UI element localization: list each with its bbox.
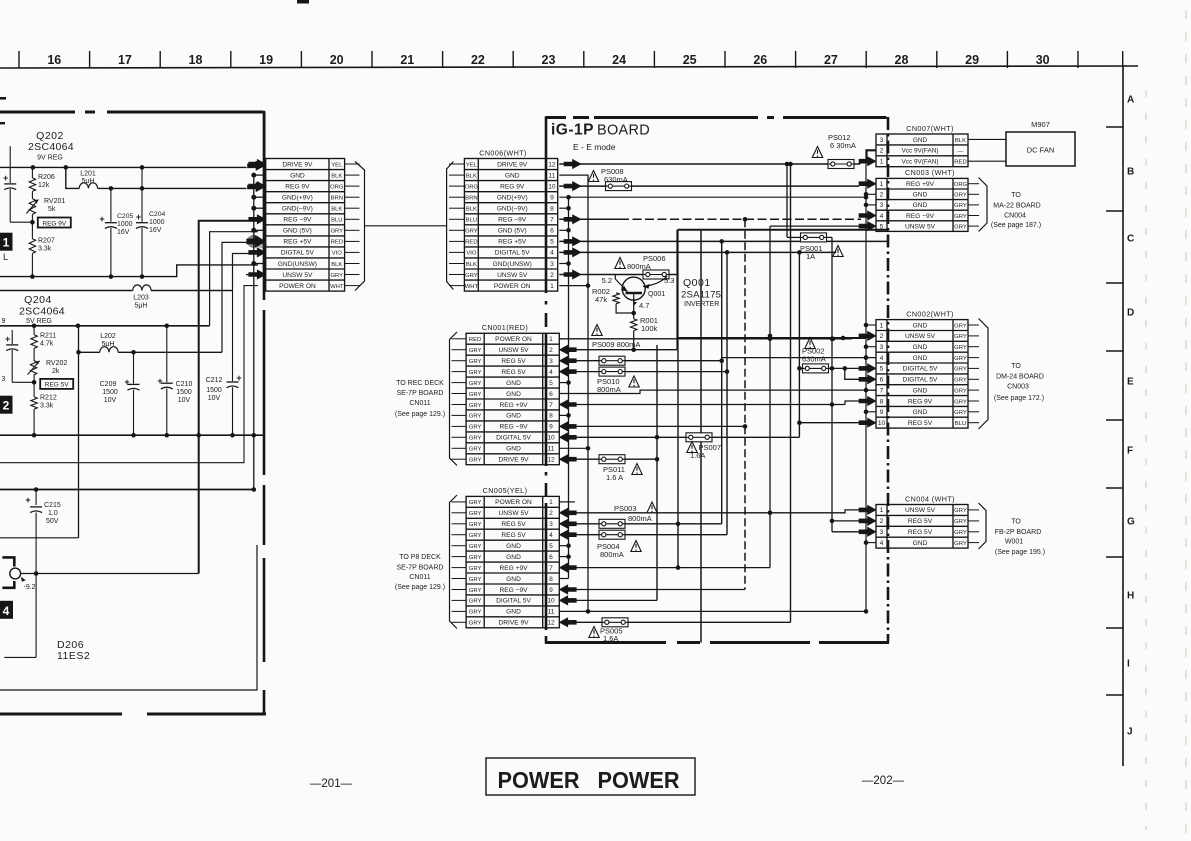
inductor L202	[100, 333, 118, 352]
fuse PS006	[627, 254, 669, 279]
svg-text:DIGITAL 5V: DIGITAL 5V	[496, 598, 531, 605]
svg-text:GND: GND	[506, 446, 521, 453]
cn001 r11 stub	[559, 447, 588, 449]
iG-1P board top border	[546, 116, 887, 119]
stubs left of CN006	[449, 164, 464, 286]
svg-text:3.3k: 3.3k	[38, 246, 52, 253]
cn005 r4 wire + fuse PS004	[559, 530, 727, 539]
E-E mode label	[573, 142, 616, 152]
stubs left of CN005	[452, 502, 467, 622]
node junction REG5V wiper	[12, 380, 36, 385]
cn001 r3 wire + fuse PS009	[559, 356, 721, 365]
junction dot L202 rail	[131, 350, 136, 355]
svg-text:CN002(WHT): CN002(WHT)	[906, 309, 954, 318]
svg-text:+: +	[236, 373, 241, 383]
capacitor C209	[100, 352, 140, 435]
ruler numbers 16-30	[47, 53, 1049, 67]
svg-text:RV201: RV201	[44, 198, 65, 205]
svg-text:20: 20	[330, 53, 344, 67]
svg-text:800mA: 800mA	[627, 262, 651, 271]
gnd collector bus left of table	[251, 173, 264, 492]
svg-text:GRY: GRY	[954, 224, 967, 230]
wire pin2 unsw5v	[559, 270, 677, 279]
drive bus v790	[790, 164, 792, 622]
cn005 r8 stub	[559, 578, 568, 580]
svg-text:GRY: GRY	[330, 229, 343, 235]
svg-text:8: 8	[549, 413, 553, 420]
svg-text:GND(−9V): GND(−9V)	[497, 206, 528, 213]
connector CN007 table	[876, 124, 968, 167]
svg-text:GND (5V): GND (5V)	[283, 228, 312, 235]
L wire CN007 pin2	[867, 150, 877, 161]
svg-text:6: 6	[549, 554, 553, 561]
svg-text:UNSW 5V: UNSW 5V	[905, 507, 936, 514]
svg-text:GRY: GRY	[469, 425, 482, 431]
wire pin12 drive9v	[559, 159, 828, 168]
svg-text:GRY: GRY	[954, 541, 967, 547]
svg-text:2: 2	[549, 347, 553, 354]
thin unsw gnd line	[0, 286, 258, 463]
svg-text:50V: 50V	[46, 518, 59, 525]
svg-text:GRY: GRY	[469, 500, 482, 506]
reg5v bus v727	[725, 252, 730, 534]
svg-text:REG −9V: REG −9V	[498, 217, 527, 224]
svg-text:GRY: GRY	[469, 522, 482, 528]
svg-text:10: 10	[878, 420, 886, 427]
svg-text:GND: GND	[913, 387, 928, 394]
svg-text:WHT: WHT	[330, 284, 344, 290]
c215 bottom corner wire	[4, 656, 36, 658]
left board top border	[0, 111, 263, 114]
svg-text:GRY: GRY	[954, 323, 967, 329]
svg-text:GRY: GRY	[469, 403, 482, 409]
svg-text:1500: 1500	[102, 389, 118, 396]
svg-text:1: 1	[880, 322, 884, 329]
svg-text:1500: 1500	[206, 387, 222, 394]
svg-text:REG 9V: REG 9V	[285, 183, 310, 190]
CN001 left brace	[450, 332, 458, 466]
svg-text:GRY: GRY	[469, 599, 482, 605]
resistor R002	[592, 287, 636, 315]
CN003 stubs + brace	[968, 184, 979, 226]
svg-text:TO P8 DECK: TO P8 DECK	[399, 554, 441, 561]
svg-text:6 30mA: 6 30mA	[830, 141, 856, 150]
svg-text:INVERTER: INVERTER	[684, 301, 719, 308]
svg-text:5μH: 5μH	[135, 303, 148, 310]
svg-text:28: 28	[895, 53, 909, 67]
svg-text:RV202: RV202	[46, 360, 67, 367]
svg-text:GND: GND	[290, 172, 305, 179]
svg-text:2k: 2k	[52, 368, 60, 375]
svg-text:REG −9V: REG −9V	[283, 217, 312, 224]
top rail q204 with L203	[0, 290, 233, 292]
diode D206 label	[57, 639, 90, 662]
svg-text:A: A	[1127, 95, 1134, 106]
svg-text:GND: GND	[506, 576, 521, 583]
wire pin5 reg+5v	[559, 237, 888, 246]
svg-text:19: 19	[259, 53, 273, 67]
stray mark top	[297, 0, 309, 4]
junction dots q204 rail	[32, 324, 169, 329]
svg-text:2: 2	[880, 518, 884, 525]
svg-text:+: +	[99, 214, 104, 224]
gnd stubs into right tables	[866, 194, 876, 542]
Q001 big labels	[681, 277, 721, 308]
svg-text:5: 5	[880, 366, 884, 373]
svg-text:1: 1	[880, 181, 884, 188]
iG-1P board bottom border	[545, 641, 889, 644]
svg-text:UNSW 5V: UNSW 5V	[905, 333, 936, 340]
scan artifact dashed edge lines	[1146, 10, 1186, 835]
row letters A-J	[1127, 95, 1135, 738]
svg-text:—201—: —201—	[310, 778, 353, 790]
svg-text:5: 5	[880, 223, 884, 230]
iG-1P board left border	[545, 116, 548, 643]
fuse PS012	[828, 133, 856, 169]
junction dots gnd rail	[30, 274, 144, 279]
svg-text:MA-22 BOARD: MA-22 BOARD	[993, 203, 1040, 210]
wire pin10 reg9v	[559, 182, 859, 191]
wire from test point	[21, 571, 199, 576]
left edge tick marks	[0, 97, 6, 124]
ruler ticks	[19, 51, 1123, 68]
svg-text:GRY: GRY	[954, 334, 967, 340]
svg-text:GND(+9V): GND(+9V)	[497, 195, 528, 202]
svg-text:3: 3	[880, 137, 884, 144]
fuse PS001	[800, 233, 827, 261]
TO MA-22 BOARD text	[991, 192, 1041, 229]
left table bundle brace	[355, 162, 365, 291]
svg-text:630mA: 630mA	[604, 175, 628, 184]
test point circle -9.2	[10, 568, 36, 591]
svg-text:8: 8	[549, 576, 553, 583]
svg-text:C209: C209	[100, 381, 117, 388]
TO P8 DECK text	[395, 554, 445, 591]
svg-text:GRY: GRY	[469, 436, 482, 442]
svg-text:6: 6	[549, 391, 553, 398]
svg-text:F: F	[1127, 446, 1133, 457]
svg-text:11: 11	[548, 609, 555, 616]
cn001 r1 wire to CN002 pin2	[559, 331, 876, 341]
svg-text:DIGTAL 5V: DIGTAL 5V	[281, 250, 315, 257]
svg-text:GRY: GRY	[469, 381, 482, 387]
svg-text:GND: GND	[913, 192, 928, 199]
fan motor M907 box	[1006, 120, 1075, 166]
svg-text:VIO: VIO	[466, 251, 477, 257]
svg-text:GRY: GRY	[465, 229, 478, 235]
svg-text:BRN: BRN	[465, 196, 477, 202]
svg-text:GND(−9V): GND(−9V)	[282, 206, 313, 213]
svg-text:9V REG: 9V REG	[37, 155, 63, 162]
svg-text:REG 5V: REG 5V	[908, 518, 933, 525]
svg-text:10V: 10V	[104, 397, 117, 404]
svg-text:TO REC DECK: TO REC DECK	[396, 380, 444, 387]
svg-text:REG +9V: REG +9V	[906, 181, 935, 188]
svg-text:SE-7P BOARD: SE-7P BOARD	[397, 390, 444, 397]
svg-text:W001: W001	[1005, 539, 1023, 546]
svg-text:BLK: BLK	[466, 207, 477, 213]
smudged arrow row8	[247, 235, 267, 249]
cn001 r7 wire	[559, 400, 845, 409]
svg-text:GRY: GRY	[954, 203, 967, 209]
inductor L203	[133, 285, 151, 310]
svg-text:UNSW 5V: UNSW 5V	[498, 347, 529, 354]
svg-text:6: 6	[880, 377, 884, 384]
svg-text:RED: RED	[469, 337, 481, 343]
svg-text:I: I	[1127, 659, 1130, 670]
svg-text:ORG: ORG	[954, 182, 968, 188]
wires to DC FAN	[968, 139, 1006, 161]
svg-text:7: 7	[880, 387, 884, 394]
svg-text:POWER ON: POWER ON	[494, 283, 531, 290]
svg-text:2: 2	[880, 148, 884, 155]
svg-text:BLU: BLU	[955, 421, 966, 427]
svg-text:BLK: BLK	[955, 138, 966, 144]
svg-text:Q001: Q001	[648, 291, 665, 298]
svg-text:C204: C204	[149, 211, 165, 218]
page link box 4	[0, 601, 13, 619]
svg-text:1: 1	[880, 507, 884, 514]
svg-text:RED: RED	[465, 240, 477, 246]
svg-text:(See page 129.): (See page 129.)	[395, 584, 445, 591]
svg-text:REG 5V: REG 5V	[908, 420, 933, 427]
arrows into left table	[249, 159, 266, 279]
wire pin9 gnd	[559, 195, 868, 200]
svg-text:+: +	[136, 212, 141, 222]
svg-text:R211: R211	[40, 333, 56, 340]
PS004 label	[597, 541, 641, 560]
svg-text:VIO: VIO	[332, 251, 343, 257]
svg-text:2: 2	[549, 510, 553, 517]
svg-text:GND: GND	[506, 380, 521, 387]
junction dots unsw rail	[34, 487, 39, 492]
svg-text:POWER: POWER	[598, 767, 680, 793]
svg-text:CN003 (WHT): CN003 (WHT)	[905, 168, 955, 177]
PS001 branch	[787, 164, 832, 237]
svg-text:3: 3	[549, 521, 553, 528]
svg-text:C215: C215	[44, 502, 61, 509]
svg-text:UNSW 5V: UNSW 5V	[905, 223, 936, 230]
svg-text:21: 21	[400, 53, 414, 67]
stub pin6	[559, 229, 568, 231]
svg-text:17: 17	[118, 53, 132, 67]
svg-text:7: 7	[549, 565, 553, 572]
stub pin8	[559, 207, 568, 209]
svg-text:DC FAN: DC FAN	[1027, 146, 1055, 155]
svg-text:+: +	[3, 173, 8, 183]
ruler line	[0, 66, 1138, 68]
svg-text:47k: 47k	[595, 295, 607, 304]
svg-text:POWER ON: POWER ON	[279, 283, 316, 290]
PS002 labels	[802, 338, 826, 364]
svg-text:POWER ON: POWER ON	[495, 499, 532, 506]
capacitor C210	[157, 326, 192, 435]
svg-text:FB-2P BOARD: FB-2P BOARD	[995, 529, 1042, 536]
svg-text:REG +5V: REG +5V	[498, 239, 527, 246]
svg-text:GND(+9V): GND(+9V)	[282, 195, 313, 202]
gnd bus right v866	[864, 161, 869, 614]
svg-text:SE-7P BOARD: SE-7P BOARD	[397, 565, 444, 572]
svg-text:9: 9	[880, 409, 884, 416]
svg-text:16V: 16V	[117, 229, 130, 236]
svg-text:630mA: 630mA	[802, 355, 826, 364]
svg-text:10: 10	[547, 435, 555, 442]
svg-text:L: L	[3, 252, 8, 262]
cn001 r12 wire + fuse PS011	[559, 455, 657, 464]
svg-text:10: 10	[547, 598, 555, 605]
cn005 r3 wire + fuse PS003	[559, 519, 721, 528]
warning triangle ps008	[588, 171, 598, 182]
svg-text:CN004 (WHT): CN004 (WHT)	[905, 494, 955, 503]
svg-text:GRY: GRY	[954, 356, 967, 362]
svg-text:GND: GND	[913, 344, 928, 351]
svg-text:BLK: BLK	[331, 173, 342, 179]
svg-text:C210: C210	[176, 381, 193, 388]
svg-text:UNSW 5V: UNSW 5V	[497, 272, 528, 279]
svg-text:Q001: Q001	[683, 277, 711, 289]
svg-text:1000: 1000	[117, 221, 133, 228]
stubs right of left table	[345, 164, 360, 286]
warning triangle ps001	[833, 246, 843, 257]
resistor R207	[29, 238, 55, 277]
resistor R212	[31, 395, 57, 436]
svg-text:4: 4	[549, 369, 553, 376]
svg-text:L203: L203	[133, 295, 149, 302]
svg-text:(See page 187.): (See page 187.)	[991, 222, 1041, 229]
svg-text:CN011: CN011	[409, 400, 430, 407]
arrow into CN002 pin8	[845, 396, 876, 405]
svg-text:4: 4	[550, 250, 554, 257]
gnd bus vertical v588	[559, 175, 590, 614]
connector CN002 table	[876, 309, 968, 428]
bottom thin wire	[0, 545, 257, 690]
svg-text:(See page 172.): (See page 172.)	[994, 395, 1044, 402]
svg-text:RED: RED	[954, 160, 966, 166]
svg-text:27: 27	[824, 53, 838, 67]
node junction dots on drive rail	[31, 165, 145, 170]
PS011 label	[603, 464, 642, 483]
svg-text:GND: GND	[913, 202, 928, 209]
svg-text:GND: GND	[506, 543, 521, 550]
junction dots reg9v rail	[109, 186, 145, 191]
svg-text:25: 25	[683, 53, 697, 67]
resistor R001	[631, 316, 658, 352]
cn001 r6 gnd wire to CN002 pin7	[559, 390, 876, 393]
svg-text:H: H	[1127, 591, 1134, 602]
resistor R206	[29, 167, 55, 191]
svg-text:BLK: BLK	[466, 262, 477, 268]
svg-text:(See page 129.): (See page 129.)	[395, 411, 445, 418]
svg-text:30: 30	[1036, 53, 1050, 67]
cn005 r5 stub	[559, 545, 568, 547]
step wire row9 digital5v	[233, 254, 259, 291]
svg-text:L201: L201	[80, 171, 96, 178]
svg-text:1: 1	[880, 159, 884, 166]
svg-text:CN006(WHT): CN006(WHT)	[479, 148, 527, 157]
left board bottom border	[0, 713, 266, 716]
connector CN003 table	[876, 168, 968, 231]
transistor Q204 labels	[19, 294, 65, 325]
PS010 label	[597, 376, 639, 394]
potentiometer RV201	[26, 191, 65, 239]
svg-text:GRY: GRY	[469, 414, 482, 420]
svg-text:REG 5V: REG 5V	[501, 358, 526, 365]
svg-text:BLU: BLU	[331, 218, 342, 224]
q001 box heavy verticals	[678, 230, 702, 643]
transistor Q001	[615, 275, 667, 319]
svg-text:5: 5	[549, 543, 553, 550]
svg-text:12k: 12k	[38, 182, 50, 189]
warning triangle near r1	[592, 325, 602, 336]
CN002 stubs + brace	[968, 325, 979, 423]
svg-text:R212: R212	[40, 395, 57, 402]
page number 201	[310, 778, 353, 790]
stub pin3	[559, 263, 568, 265]
svg-text:Vcc 9V(FAN): Vcc 9V(FAN)	[902, 159, 939, 166]
reg-9v bus v745 dashed	[744, 219, 746, 589]
svg-text:C: C	[1127, 234, 1134, 245]
cn005 r7 wire	[559, 563, 770, 572]
svg-text:GND: GND	[913, 322, 928, 329]
stub rail y537	[0, 537, 79, 539]
heavy unsw rail	[0, 489, 254, 491]
svg-text:GRY: GRY	[954, 519, 967, 525]
svg-text:4: 4	[880, 540, 884, 547]
cn001 r5 stub	[559, 382, 568, 384]
svg-text:26: 26	[753, 53, 767, 67]
svg-text:GND: GND	[913, 355, 928, 362]
svg-text:8: 8	[550, 206, 554, 213]
ground rail q202 with step to GND(UNSW) row	[0, 265, 258, 277]
cn001 r2 wire	[559, 345, 677, 354]
svg-text:5μH: 5μH	[82, 178, 95, 185]
svg-text:REG 9V: REG 9V	[500, 183, 525, 190]
arrow into DRIVE 9V row	[248, 161, 265, 170]
svg-text:+: +	[5, 334, 10, 344]
CN006 bundle brace	[447, 162, 454, 290]
svg-text:DRIVE 9V: DRIVE 9V	[497, 161, 528, 168]
page link box 2	[0, 396, 13, 414]
svg-text:PS003: PS003	[614, 504, 637, 513]
svg-text:GRY: GRY	[465, 273, 478, 279]
svg-text:12: 12	[547, 620, 555, 627]
svg-text:2SA1175: 2SA1175	[681, 290, 721, 301]
svg-text:REG 9V: REG 9V	[908, 398, 933, 405]
cn005 r12 wire + fuse PS005	[559, 618, 790, 627]
svg-text:GRY: GRY	[469, 348, 482, 354]
PS009 label	[592, 340, 640, 349]
long vertical v678 lower	[676, 350, 681, 570]
stubs left of CN001	[452, 339, 467, 459]
svg-text:11: 11	[548, 172, 555, 179]
svg-text:GRY: GRY	[469, 533, 482, 539]
svg-text:1: 1	[549, 499, 553, 506]
svg-text:5: 5	[550, 239, 554, 246]
arrow into CN003 pin1	[859, 179, 876, 188]
cn001 r10 wire + fuse PS007	[559, 433, 799, 442]
svg-text:12: 12	[547, 457, 555, 464]
svg-text:GRY: GRY	[469, 566, 482, 572]
svg-text:GRY: GRY	[469, 621, 482, 627]
cn005 r9 wire	[559, 585, 745, 594]
cn005 r11 gnd wire	[559, 610, 866, 612]
svg-text:REG 5V: REG 5V	[45, 382, 70, 389]
svg-text:C205: C205	[117, 213, 133, 220]
svg-text:E: E	[1127, 377, 1134, 388]
svg-text:GRY: GRY	[469, 544, 482, 550]
svg-text:B: B	[1127, 167, 1134, 178]
cn001 r8 stub	[559, 414, 568, 416]
